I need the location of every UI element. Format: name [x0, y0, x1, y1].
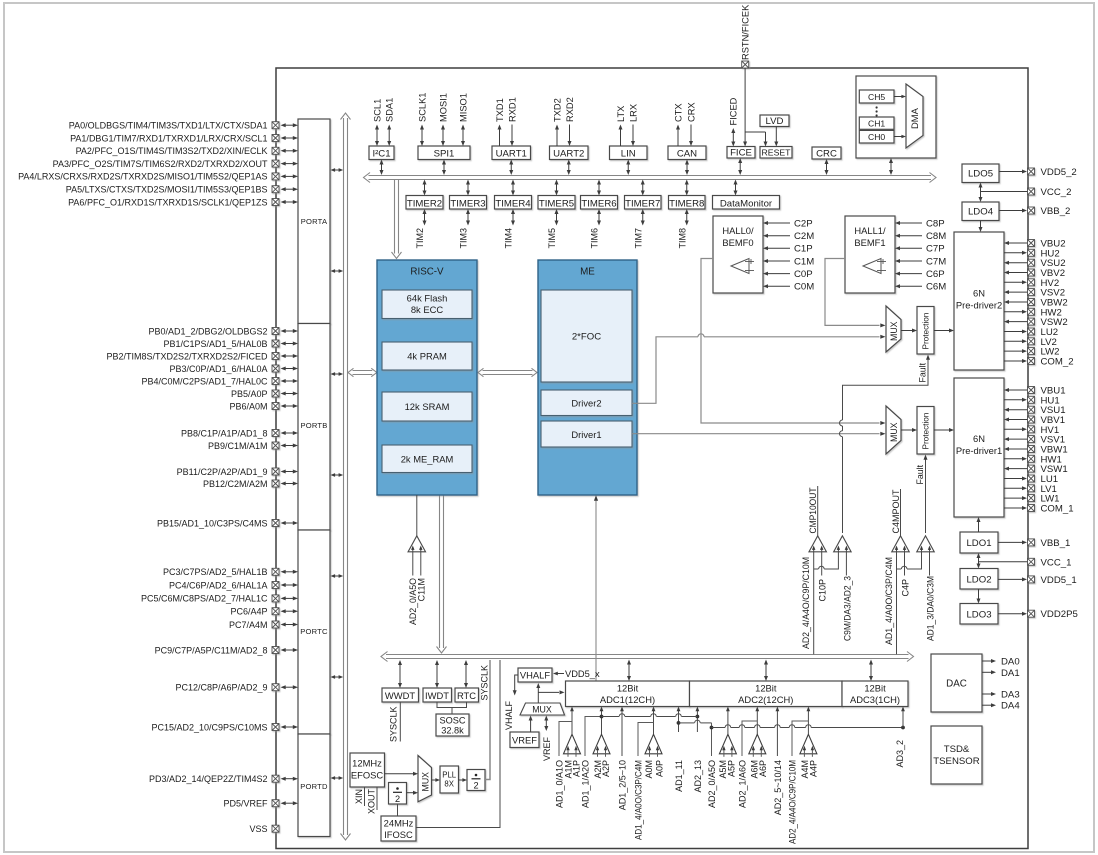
- svg-text:4k PRAM: 4k PRAM: [407, 351, 447, 362]
- pin PA0: [69, 121, 298, 131]
- block ADC3: [842, 681, 908, 707]
- svg-text:AD2_5~10/14: AD2_5~10/14: [773, 760, 783, 815]
- svg-text:A0M: A0M: [644, 760, 654, 779]
- svg-text:TIM5: TIM5: [547, 228, 557, 249]
- block LDO3: [960, 604, 998, 625]
- svg-text:MISO1: MISO1: [458, 93, 468, 122]
- svg-text:C8P: C8P: [926, 218, 945, 229]
- svg-text:TXD2: TXD2: [552, 98, 562, 122]
- block ADC1: [566, 681, 690, 707]
- block 24MHz IFOSC: [381, 816, 416, 841]
- pin VSS: [249, 824, 279, 834]
- pin DA0: [982, 657, 1020, 668]
- channel AD2_13: [693, 707, 703, 793]
- wire W3 (AD2_0 junction to AD3_2): [712, 725, 905, 730]
- svg-text:DA3: DA3: [1001, 690, 1020, 701]
- svg-text:BEMF1: BEMF1: [854, 237, 885, 248]
- svg-text:AD2_13: AD2_13: [693, 760, 703, 793]
- wire Protection1 to Pre-driver2: [934, 329, 954, 333]
- DMA bus arrow: [889, 158, 893, 175]
- block WWDT: [382, 660, 419, 742]
- pin HW2: [1004, 307, 1062, 318]
- port-bus arrow: [331, 269, 344, 273]
- bus arrow to ADC1: [627, 660, 631, 682]
- stub AD2_0/A5O input: [408, 552, 418, 625]
- svg-text:CMP10OUT: CMP10OUT: [808, 487, 818, 533]
- wire W1 (op-amp2 to AD2_13): [602, 714, 698, 717]
- block 12MHz EFOSC: [350, 753, 385, 787]
- svg-text:RXD2: RXD2: [565, 97, 575, 122]
- RISC-V sub-block 2k ME_RAM: [382, 445, 472, 473]
- timer block TIMER6: [581, 180, 618, 249]
- wire CH0 to DMA: [894, 135, 906, 139]
- svg-text:COM_2: COM_2: [1041, 357, 1074, 368]
- svg-text:VDD5_1: VDD5_1: [1041, 575, 1077, 586]
- wire PLL to div2: [459, 778, 468, 782]
- pin PD3: [149, 774, 298, 784]
- pin PC12: [175, 683, 298, 693]
- svg-text:AD2_1/A6O: AD2_1/A6O: [737, 760, 747, 808]
- svg-text:PB1/C1PS/AD1_5/HAL0B: PB1/C1PS/AD1_5/HAL0B: [163, 339, 267, 349]
- wire AD1_4/A0O/C3P/C4M channel line group2: [884, 552, 922, 654]
- block RESET: [760, 147, 792, 159]
- pin LU2: [1004, 327, 1058, 338]
- wire Driver1 output to MUX2: [632, 432, 886, 436]
- svg-text:PB11/C2P/A2P/AD1_9: PB11/C2P/A2P/AD1_9: [177, 467, 268, 477]
- svg-text:PB4/C0M/C2PS/AD1_7/HAL0C: PB4/C0M/C2PS/AD1_7/HAL0C: [141, 376, 268, 386]
- pin VBW1: [1004, 445, 1068, 456]
- block HALL0/BEMF0: [713, 216, 814, 293]
- svg-text:A6P: A6P: [758, 760, 768, 777]
- pin LV1: [1004, 484, 1057, 495]
- svg-text:C0M: C0M: [794, 282, 814, 293]
- pin PC6: [230, 607, 298, 617]
- stub AD1_3/DA0/C3M input group2: [925, 552, 935, 641]
- block HALL1/BEMF1: [845, 216, 946, 293]
- svg-text:VREF: VREF: [542, 737, 552, 762]
- DMA channel CH5: [859, 90, 894, 103]
- svg-text:PB5/A0P: PB5/A0P: [231, 389, 268, 399]
- port block PORTD: [298, 734, 330, 837]
- analog MUX trapezoid: [520, 703, 565, 715]
- svg-text:IFOSC: IFOSC: [384, 829, 413, 840]
- pin PB5: [231, 389, 298, 399]
- svg-text:PA4/LRXS/CRXS/RXD2S/TXRXD2S/MI: PA4/LRXS/CRXS/RXD2S/TXRXD2S/MISO1/TIM5S2…: [18, 172, 267, 182]
- block LDO1: [960, 532, 998, 553]
- svg-text:C6M: C6M: [926, 282, 946, 293]
- svg-text:LDO4: LDO4: [968, 207, 994, 218]
- svg-text:C7M: C7M: [926, 256, 946, 267]
- svg-text:AD1_4/A0O/C3P/C4M: AD1_4/A0O/C3P/C4M: [633, 760, 643, 840]
- svg-text:C11M: C11M: [417, 578, 427, 601]
- svg-text:AD2_4/A4O/C9P/C10M: AD2_4/A4O/C9P/C10M: [801, 557, 811, 649]
- block LDO5: [962, 164, 999, 183]
- pin DA4: [982, 701, 1020, 712]
- wire op-amp2 output + AD1_1/A2O elbow: [580, 707, 603, 809]
- DMA channel CH0: [859, 130, 894, 143]
- pin PB6: [229, 401, 298, 411]
- pin PC7: [229, 620, 298, 630]
- svg-text:SYSCLK: SYSCLK: [389, 707, 399, 743]
- svg-text:PC3/C7PS/AD2_5/HAL1B: PC3/C7PS/AD2_5/HAL1B: [163, 567, 268, 577]
- peripheral block UART1: [492, 97, 531, 175]
- DMA channel dots: [876, 106, 878, 116]
- labels A6M A6P: [749, 760, 768, 779]
- svg-text:MUX: MUX: [421, 772, 431, 792]
- block LDO2: [960, 569, 998, 590]
- svg-text:TXD1: TXD1: [495, 98, 505, 122]
- pin VDD5_2: [999, 167, 1077, 178]
- svg-text:XOUT: XOUT: [366, 789, 376, 815]
- timer block TIMER3: [450, 180, 487, 249]
- svg-text:IWDT: IWDT: [425, 690, 449, 701]
- timer block TIMER7: [625, 180, 662, 249]
- svg-text:12Bit: 12Bit: [864, 682, 886, 693]
- channel AD3_2: [895, 707, 905, 768]
- pin HU1: [1004, 395, 1060, 406]
- svg-text:LDO5: LDO5: [968, 169, 993, 180]
- svg-text:LIN: LIN: [621, 149, 636, 160]
- svg-text:A0P: A0P: [654, 760, 664, 777]
- bus arrow to ADC2: [764, 660, 768, 682]
- svg-text:12Bit: 12Bit: [617, 682, 639, 693]
- wire Driver2 output to MUX1: [632, 334, 886, 404]
- svg-text:A5P: A5P: [726, 760, 736, 777]
- timer block TIMER5: [538, 180, 575, 249]
- svg-text:PORTB: PORTB: [300, 421, 327, 430]
- pin PB12: [203, 479, 298, 489]
- ME sub-block 2*FOC: [541, 290, 632, 382]
- svg-text:C0P: C0P: [794, 269, 813, 280]
- svg-text:DA1: DA1: [1001, 668, 1020, 679]
- pin PD5: [223, 799, 298, 809]
- pin PC5: [141, 594, 298, 604]
- wire AD2_0/A5O channel: [707, 723, 717, 808]
- channel AD2_5~10/14: [773, 707, 783, 816]
- block LDO4: [962, 202, 999, 221]
- pin COM_1: [1004, 504, 1074, 515]
- pin DA1: [982, 668, 1020, 679]
- svg-text:PORTC: PORTC: [300, 627, 328, 636]
- block DMA container: [856, 76, 936, 158]
- svg-text:CTX: CTX: [673, 103, 683, 122]
- svg-text:PB0/AD1_2/DBG2/OLDBGS2: PB0/AD1_2/DBG2/OLDBGS2: [148, 326, 267, 336]
- wire MUX to PLL: [432, 778, 441, 782]
- svg-text:RESET: RESET: [762, 147, 792, 157]
- labels A2M A2P: [593, 760, 611, 779]
- pin VSU2: [1004, 258, 1066, 269]
- svg-text:PB6/A0M: PB6/A0M: [229, 401, 267, 411]
- port-bus arrow: [331, 168, 344, 172]
- svg-text:2: 2: [473, 780, 478, 790]
- svg-text:MUX: MUX: [532, 704, 552, 714]
- svg-text:12MHz: 12MHz: [352, 758, 382, 769]
- svg-text:PA3/PFC_O2S/TIM7S/TIM6S2/RXD2/: PA3/PFC_O2S/TIM7S/TIM6S2/RXD2/TXRXD2/XOU…: [53, 159, 268, 169]
- timer block TIMER2: [406, 180, 443, 249]
- svg-text:PA2/PFC_O1S/TIM4S/TIM3S2/TXD2/: PA2/PFC_O1S/TIM4S/TIM3S2/TXD2/XIN/ECLK: [76, 146, 268, 156]
- svg-text:TIM6: TIM6: [590, 228, 600, 249]
- peripheral block UART2: [550, 97, 589, 175]
- block IWDT: [423, 660, 452, 702]
- svg-text:HALL1/: HALL1/: [854, 225, 886, 236]
- pin PC4: [169, 580, 298, 590]
- pin VSV2: [1004, 288, 1065, 299]
- svg-text:PA0/OLDBGS/TIM4/TIM3S/TXD1/LTX: PA0/OLDBGS/TIM4/TIM3S/TXD1/LTX/CTX/SDA1: [69, 121, 268, 131]
- stub C11M input: [417, 552, 427, 601]
- stub C10P input group1: [818, 552, 828, 602]
- svg-text:VREF: VREF: [512, 734, 537, 745]
- clock MUX trapezoid: [418, 756, 432, 802]
- pin VCC_1: [979, 557, 1072, 568]
- pin PC9: [155, 645, 298, 655]
- svg-text:CH0: CH0: [868, 132, 885, 142]
- wire Fault1 from comparator to Protection1: [840, 355, 931, 534]
- wire op-amp1 output + AD1_0/A1O elbow: [554, 707, 574, 809]
- svg-text:PB12/C2M/A2M: PB12/C2M/A2M: [203, 479, 268, 489]
- block divide-by-2 (internal osc): [389, 783, 407, 805]
- wire CH5 to DMA: [894, 95, 906, 99]
- pin VSU1: [1004, 405, 1066, 416]
- block DataMonitor: [713, 180, 780, 210]
- svg-text:PC6/A4P: PC6/A4P: [230, 607, 267, 617]
- wire SYSCLK from div2 to bus: [479, 660, 490, 780]
- svg-text:I²C1: I²C1: [372, 149, 390, 160]
- pin VBU2: [1004, 239, 1066, 250]
- svg-text:TIM8: TIM8: [677, 228, 687, 249]
- svg-text:VCC_2: VCC_2: [1041, 187, 1072, 198]
- svg-text:VDD5_2: VDD5_2: [1041, 167, 1077, 178]
- svg-text:SPI1: SPI1: [434, 149, 455, 160]
- svg-text:TIMER5: TIMER5: [539, 198, 574, 209]
- svg-text:SOSC: SOSC: [439, 716, 465, 726]
- svg-text:Driver1: Driver1: [571, 429, 601, 440]
- svg-text:ADC2(12CH): ADC2(12CH): [738, 694, 793, 705]
- svg-text:24MHz: 24MHz: [384, 818, 414, 829]
- svg-text:8X: 8X: [444, 780, 454, 789]
- svg-text:AD1_11: AD1_11: [674, 760, 684, 792]
- peripheral block SPI1: [417, 93, 470, 175]
- svg-text:PB8/C1P/A1P/AD1_8: PB8/C1P/A1P/AD1_8: [181, 428, 268, 438]
- pin LU1: [1004, 474, 1058, 485]
- pin PA1: [70, 133, 298, 143]
- svg-text:C1M: C1M: [794, 256, 814, 267]
- RISC-V to ME connector: [478, 368, 537, 376]
- svg-text:LDO3: LDO3: [966, 610, 991, 621]
- bus connector to RISC-V (vertical): [392, 180, 402, 259]
- svg-text:UART1: UART1: [496, 149, 527, 160]
- pin DA3: [982, 690, 1020, 701]
- svg-text:RSTN/FICEK: RSTN/FICEK: [741, 4, 751, 60]
- svg-text:C6P: C6P: [926, 269, 945, 280]
- svg-text:XIN: XIN: [354, 789, 364, 804]
- svg-text:12k SRAM: 12k SRAM: [405, 401, 450, 412]
- pin VDD2P5: [998, 609, 1078, 620]
- crystal pin XOUT: [366, 787, 377, 814]
- svg-text:MUX: MUX: [889, 321, 899, 341]
- block divide-by-2 (PLL out): [467, 770, 485, 791]
- comparator C11 (below RISC-V): [408, 495, 426, 552]
- svg-text:Fault: Fault: [915, 464, 925, 484]
- wire VREF to MUX: [529, 716, 533, 733]
- svg-text:6N: 6N: [973, 288, 985, 299]
- pin LV2: [1004, 337, 1057, 348]
- block RISC-V: [377, 260, 477, 495]
- svg-text:SCLK1: SCLK1: [417, 93, 427, 122]
- channel AD1_11: [674, 707, 684, 792]
- svg-text:COM_1: COM_1: [1041, 504, 1074, 515]
- svg-text:FICED: FICED: [729, 97, 739, 125]
- wire Protection2 to Pre-driver1: [934, 428, 954, 432]
- LDO4 to Pre-driver2 arrow: [979, 221, 983, 233]
- labels A1M A1P: [563, 760, 581, 779]
- comparator Fault2 (triangle B group2): [917, 536, 935, 552]
- wire op-amp3 output + AD1_4/A0O/C3P/C4M elbow: [633, 707, 655, 841]
- block PLL 8X: [440, 766, 459, 793]
- wire AD2_4/A4O/C9P/C10M channel line group1: [801, 552, 838, 654]
- svg-text:MUX: MUX: [889, 422, 899, 442]
- block FICE: [727, 97, 755, 175]
- svg-text:LDO1: LDO1: [966, 538, 991, 549]
- bus-RISC-V horizontal connector: [348, 368, 377, 376]
- svg-text:CRX: CRX: [686, 102, 696, 122]
- block DAC: [931, 654, 982, 712]
- svg-text:PC9/C7P/A5P/C11M/AD2_8: PC9/C7P/A5P/C11M/AD2_8: [155, 645, 268, 655]
- port-bus arrow: [331, 372, 344, 376]
- block RTC: [455, 660, 479, 702]
- port-bus arrow: [331, 473, 344, 477]
- ADC bus (lower horizontal): [381, 652, 914, 662]
- op-amp (ADC2 group): [800, 734, 817, 757]
- wire HALL1 output to MUX1: [825, 259, 886, 328]
- svg-text:TSENSOR: TSENSOR: [933, 756, 979, 767]
- LDO1 to Pre-driver1 arrow: [977, 517, 981, 532]
- mux MUX1: [886, 306, 901, 352]
- svg-text:TIMER7: TIMER7: [625, 198, 660, 209]
- pin PA6: [68, 197, 298, 207]
- channel AD1_2/5~10: [617, 707, 627, 811]
- svg-text:A2P: A2P: [601, 760, 611, 777]
- pin HV1: [1004, 425, 1059, 436]
- pin PA5: [66, 185, 298, 195]
- wire op-amp4 output: [726, 707, 730, 735]
- svg-text:TIM4: TIM4: [504, 228, 514, 249]
- svg-text:PD5/VREF: PD5/VREF: [223, 799, 268, 809]
- wire MUX to VHALF: [536, 683, 564, 703]
- op-amp (ADC1 group): [564, 734, 581, 757]
- svg-text:SYSCLK: SYSCLK: [479, 665, 489, 701]
- svg-text:DA0: DA0: [1001, 657, 1020, 668]
- svg-text:DataMonitor: DataMonitor: [720, 198, 773, 209]
- block 6N Pre-driver1: [954, 378, 1004, 517]
- pin VBU1: [1004, 386, 1066, 397]
- svg-text:2*FOC: 2*FOC: [572, 332, 601, 343]
- svg-text:TIMER3: TIMER3: [450, 198, 485, 209]
- pin VSW2: [1004, 317, 1068, 328]
- pin PB2: [106, 351, 298, 361]
- svg-text:Protection: Protection: [922, 312, 931, 349]
- svg-text:PA6/PFC_O1/RXD1S/TXRXD1S/SCLK1: PA6/PFC_O1/RXD1S/TXRXD1S/SCLK1/QEP1ZS: [68, 197, 267, 207]
- block ADC2: [690, 681, 843, 707]
- svg-text:PORTD: PORTD: [300, 782, 328, 791]
- comparator Fault1 (triangle B group1): [834, 536, 852, 552]
- peripheral block LIN: [610, 104, 648, 175]
- svg-text:EFOSC: EFOSC: [351, 770, 384, 781]
- mux MUX2: [886, 406, 901, 454]
- svg-text:PC12/C8P/A6P/AD2_9: PC12/C8P/A6P/AD2_9: [175, 683, 267, 693]
- svg-text:Pre-driver1: Pre-driver1: [956, 445, 1002, 456]
- wire W2 (AD1_11 to AD2_0): [679, 720, 712, 727]
- block Protection (lower): [917, 407, 934, 455]
- block 6N Pre-driver2: [954, 232, 1004, 370]
- svg-text:TIMER8: TIMER8: [669, 198, 704, 209]
- wire op-amp5 output + AD2_1/A6O elbow: [737, 707, 759, 809]
- peripheral block CAN: [668, 102, 706, 175]
- svg-text:PB3/C0P/AD1_6/HAL0A: PB3/C0P/AD1_6/HAL0A: [169, 364, 267, 374]
- svg-text:ADC1(12CH): ADC1(12CH): [600, 694, 655, 705]
- pin LW1: [1004, 494, 1060, 505]
- port block PORTB: [298, 324, 330, 531]
- svg-text:VBB_2: VBB_2: [1041, 206, 1071, 217]
- DMA channel CH1: [859, 117, 894, 129]
- svg-text:VCC_1: VCC_1: [1041, 557, 1072, 568]
- svg-text:C4MPOUT: C4MPOUT: [891, 489, 901, 533]
- svg-text:CH1: CH1: [868, 119, 885, 129]
- svg-text:C8M: C8M: [926, 231, 946, 242]
- wire div2 to MUX: [407, 791, 419, 795]
- svg-text:PA5/LTXS/CTXS/TXD2S/MOSI1/TIM5: PA5/LTXS/CTXS/TXD2S/MOSI1/TIM5S3/QEP1BS: [66, 185, 268, 195]
- svg-text:C4P: C4P: [900, 579, 910, 597]
- stub C4P input group2: [900, 552, 910, 597]
- svg-text:Protection: Protection: [922, 412, 931, 449]
- VDD5_x label arrow: [553, 669, 600, 679]
- LDO5-LDO4 arrow: [979, 183, 983, 203]
- timer block TIMER8: [669, 180, 706, 249]
- svg-text:PC4/C6P/AD2_6/HAL1A: PC4/C6P/AD2_6/HAL1A: [169, 580, 268, 590]
- DMA mux trapezoid: [906, 84, 923, 148]
- svg-text:2: 2: [395, 794, 400, 804]
- pin VCC_2: [981, 187, 1072, 198]
- svg-text:DMA: DMA: [909, 107, 920, 129]
- svg-text:AD1_2/5~10: AD1_2/5~10: [617, 760, 627, 810]
- VHALF output arrow (down-left): [504, 675, 518, 730]
- svg-text:PB9/C1M/A1M: PB9/C1M/A1M: [208, 441, 268, 451]
- op-amp (ADC2 group): [719, 734, 736, 757]
- svg-text:AD1_3/DA0/C3M: AD1_3/DA0/C3M: [925, 576, 935, 641]
- svg-text:C2M: C2M: [794, 231, 814, 242]
- pin PB3: [169, 364, 298, 374]
- svg-text:C9M/DA3/AD2_3: C9M/DA3/AD2_3: [842, 576, 852, 641]
- svg-text:PLL: PLL: [442, 771, 457, 780]
- RISC-V to ADC bus connector (vertical): [437, 495, 447, 653]
- comparator C4MP (triangle A group2): [891, 489, 909, 552]
- labels A4M A4P: [800, 760, 819, 779]
- pin HV2: [1004, 278, 1059, 289]
- svg-text:TIMER6: TIMER6: [581, 198, 616, 209]
- wire ADC1 to ME: [594, 495, 598, 681]
- pin PB11: [177, 467, 298, 477]
- pin HU2: [1004, 248, 1060, 259]
- block CRC: [812, 147, 841, 175]
- svg-text:BEMF0: BEMF0: [722, 237, 753, 248]
- pin VBB_2: [999, 206, 1070, 217]
- svg-text:PA1/DBG1/TIM7/RXD1/TXRXD1/LRX/: PA1/DBG1/TIM7/RXD1/TXRXD1/LRX/CRX/SCL1: [70, 133, 267, 143]
- pin VBV1: [1004, 415, 1065, 426]
- svg-text:2k ME_RAM: 2k ME_RAM: [401, 453, 454, 464]
- svg-text:PC15/AD2_10/C9PS/C10MS: PC15/AD2_10/C9PS/C10MS: [151, 722, 267, 732]
- svg-text:PB15/AD1_10/C3PS/C4MS: PB15/AD1_10/C3PS/C4MS: [157, 518, 268, 528]
- svg-text:AD3_2: AD3_2: [895, 740, 905, 768]
- ME sub-block Driver2: [541, 390, 632, 416]
